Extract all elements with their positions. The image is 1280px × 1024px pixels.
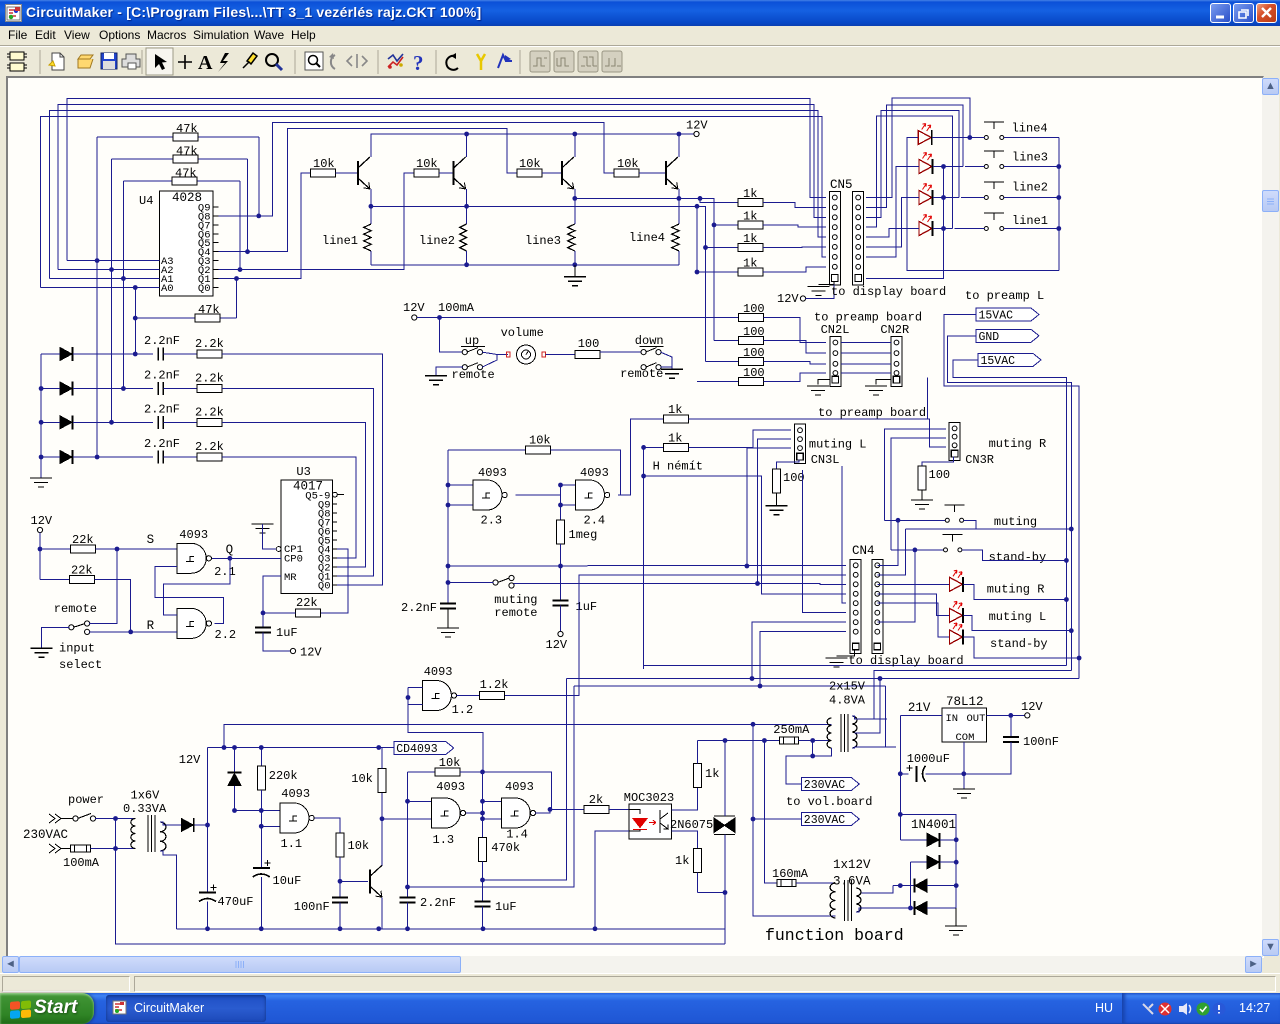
LED line3 indicator bbox=[919, 160, 932, 174]
capacitor 2.2nF row3 bbox=[158, 416, 163, 429]
wire fuse to transformer bbox=[91, 848, 136, 850]
wire flag 15VAC lower loop Va bbox=[953, 360, 1066, 666]
svg-text:12V: 12V bbox=[403, 301, 425, 315]
svg-text:100mA: 100mA bbox=[438, 301, 475, 315]
svg-text:remote: remote bbox=[620, 367, 663, 381]
resistor 47k (R4) bbox=[135, 317, 236, 319]
ground input select bbox=[31, 648, 53, 657]
wire 2.3 input node bbox=[447, 450, 449, 604]
svg-text:CD4093: CD4093 bbox=[396, 743, 438, 756]
svg-text:2.2nF: 2.2nF bbox=[144, 334, 180, 348]
resistor 470k bbox=[479, 838, 487, 862]
svg-text:select: select bbox=[59, 658, 102, 672]
wire 12V node vertical bbox=[207, 748, 209, 893]
wire remote throw to S bbox=[89, 549, 117, 624]
wire muting remote line to CN4 pin3 bbox=[448, 582, 494, 584]
wire 2.4 output bbox=[618, 419, 663, 495]
wire row4 to U3 Q3 bbox=[222, 457, 356, 558]
wire staircase A0 to diode row1 bbox=[134, 288, 136, 355]
NAND gate 2.4 bbox=[576, 480, 605, 510]
svg-text:100nF: 100nF bbox=[294, 900, 330, 914]
LED line2 indicator bbox=[919, 191, 932, 205]
svg-text:line3: line3 bbox=[1012, 151, 1048, 165]
svg-text:muting: muting bbox=[494, 593, 537, 607]
NAND gate 2.1 bbox=[177, 543, 206, 573]
wire Q4 to 22k bbox=[320, 549, 348, 613]
svg-text:?: ? bbox=[413, 51, 424, 75]
resistor 47k (R3) bbox=[123, 180, 240, 182]
wire standby switch line bbox=[891, 549, 944, 551]
wire 47k R4 to Q1 bbox=[236, 279, 238, 319]
wire A2 row bbox=[58, 269, 160, 271]
relay coil line4 bbox=[672, 224, 679, 251]
transistor Q2 line2 driver bbox=[453, 161, 455, 185]
svg-text:line2: line2 bbox=[419, 234, 455, 248]
diode input row2 bbox=[60, 382, 72, 395]
wire 1k lower to CN3L pin1 bbox=[688, 430, 791, 447]
wire 100R to down switch bbox=[600, 351, 642, 353]
svg-text:IN: IN bbox=[946, 713, 959, 725]
wire 1.1 output to 10k bbox=[314, 818, 340, 833]
wire CN3L square to 100R bbox=[777, 460, 800, 469]
resistor 1k (to CN5 pin6) bbox=[706, 247, 738, 249]
svg-text:230VAC: 230VAC bbox=[804, 779, 846, 792]
resistor 100 (CN3L) bbox=[773, 469, 781, 493]
NAND gate 1.2 bbox=[422, 681, 451, 711]
resistor 100 (r4) bbox=[697, 381, 738, 383]
wire 1uF to 12V term bbox=[560, 606, 562, 632]
capacitor 2.2nF (1.3) bbox=[400, 898, 416, 903]
wire CN4R pin5 to standby LED bbox=[878, 603, 950, 637]
switch line4 bbox=[984, 136, 988, 140]
wire 1.4 input node bbox=[482, 772, 484, 838]
svg-text:100: 100 bbox=[783, 471, 805, 485]
wire Q4 net to bus L6 bbox=[219, 129, 518, 252]
svg-text:to preamp board: to preamp board bbox=[818, 406, 926, 420]
svg-text:10k: 10k bbox=[313, 157, 335, 171]
ground mute cap bbox=[447, 609, 449, 629]
wire 22k R to R-line bbox=[95, 580, 131, 632]
terminal 12V volume bbox=[412, 315, 417, 320]
svg-text:muting R: muting R bbox=[989, 437, 1047, 451]
wire 21V to IN bbox=[900, 714, 942, 716]
wire MOC pin4 to 1k bbox=[671, 788, 697, 811]
wire trunk B vertical bbox=[408, 686, 574, 887]
svg-text:21V: 21V bbox=[908, 701, 931, 715]
switch line2 bbox=[984, 196, 988, 200]
LED muting R bbox=[950, 577, 963, 591]
svg-text:2.2: 2.2 bbox=[215, 628, 237, 642]
svg-text:1meg: 1meg bbox=[569, 528, 598, 542]
svg-text:muting: muting bbox=[994, 515, 1037, 529]
wire 2.2 out to 2.1 input (feedback) bbox=[155, 567, 224, 624]
svg-text:100: 100 bbox=[743, 366, 765, 380]
resistor 1k (gate) bbox=[694, 849, 702, 873]
svg-text:CN2L: CN2L bbox=[821, 323, 850, 337]
wire 10k osc line bbox=[408, 771, 436, 773]
wire mute line to CN4 pin1 bbox=[448, 564, 846, 567]
svg-text:2.2nF: 2.2nF bbox=[144, 369, 180, 383]
wire OUT to 12V bbox=[987, 714, 1025, 716]
node A2 junction bbox=[109, 267, 114, 272]
wire standby cathode bbox=[964, 637, 1080, 658]
terminal 12V rail bbox=[694, 131, 699, 136]
wire T1 secondary top to rectifier bbox=[160, 822, 181, 825]
ground CN2L bbox=[807, 386, 829, 395]
wire bus L1 (line4 net) bbox=[67, 98, 826, 260]
switch line3 bbox=[984, 165, 988, 169]
wire diode row4 bbox=[41, 456, 60, 458]
svg-text:remote: remote bbox=[452, 368, 495, 382]
svg-text:1.1: 1.1 bbox=[281, 837, 303, 851]
connector CN3R bbox=[949, 422, 960, 460]
svg-text:2.2nF: 2.2nF bbox=[144, 402, 180, 416]
wire MOC pin1 bbox=[629, 809, 640, 814]
resistor 1k (to CN5 pin4) bbox=[714, 224, 738, 226]
capacitor 1uF (MR) bbox=[255, 628, 271, 633]
wire 12V 100mA line bbox=[417, 317, 738, 319]
terminal 12V CN5 bbox=[800, 296, 805, 301]
svg-text:power: power bbox=[68, 793, 104, 807]
wire T3 emitter to coil bbox=[574, 189, 576, 224]
wire staircase A1 to diode row2 bbox=[122, 181, 124, 389]
wire CN5R pin2 to line3 switch bbox=[866, 105, 963, 208]
wire trunk A to CN4 pin7 bbox=[566, 678, 1079, 680]
wire LED3 anode to CN5R pin6 bbox=[866, 198, 919, 247]
svg-text:22k: 22k bbox=[296, 596, 318, 610]
diode input row1 bbox=[60, 348, 72, 361]
wire 2.3 out to 2.4 in bbox=[516, 494, 561, 496]
wire T1 secondary bottom bbox=[160, 851, 176, 929]
svg-text:line4: line4 bbox=[629, 231, 665, 245]
resistor 1k (MOC top) bbox=[694, 764, 702, 788]
wire muting return bbox=[964, 520, 976, 529]
svg-text:1uF: 1uF bbox=[495, 900, 517, 914]
node A3 junction bbox=[95, 258, 100, 263]
svg-text:2.2nF: 2.2nF bbox=[420, 896, 456, 910]
wire T2 emitter to coil bbox=[466, 189, 468, 224]
IC 78L12 regulator bbox=[942, 708, 987, 742]
capacitor 1uF (1.4) bbox=[475, 902, 491, 907]
resistor 1.2k bbox=[480, 692, 505, 700]
resistor 47k (R1) bbox=[97, 136, 259, 138]
svg-text:stand-by: stand-by bbox=[990, 637, 1048, 651]
wire 47k R1 to Q8 bbox=[258, 137, 260, 216]
wire standby return bbox=[962, 550, 1067, 561]
svg-text:1k: 1k bbox=[675, 854, 689, 868]
wire to preamp line to CN3R pin3 bbox=[690, 419, 946, 447]
svg-text:Q: Q bbox=[226, 543, 234, 557]
wire diode row2 bbox=[41, 388, 60, 390]
svg-text:10k: 10k bbox=[439, 756, 461, 770]
wire LED4 anode to CN5R pin5 bbox=[866, 229, 919, 238]
capacitor 2.2nF (mute) bbox=[440, 604, 456, 609]
wire CN4R pin2 to muting return bbox=[878, 529, 906, 575]
flag 15VAC lower bbox=[978, 353, 1041, 366]
wire switch to motor bbox=[482, 352, 508, 354]
svg-text:12V: 12V bbox=[1021, 700, 1043, 714]
fuse 100mA bbox=[71, 845, 91, 852]
resistor 100 (r1) bbox=[738, 314, 763, 322]
wire line status tap A bbox=[575, 198, 714, 340]
resistor 10k (T4 base) bbox=[614, 169, 639, 177]
resistor 100 (CN3R) bbox=[918, 466, 926, 490]
wire T1 emitter to coil bbox=[370, 189, 372, 224]
wire CN3R square to 100R bbox=[922, 457, 954, 466]
wire staircase A2 to diode row3 bbox=[111, 159, 113, 422]
wire fuse to T2 primary bbox=[799, 740, 832, 742]
diode rectifier 1N4001 bbox=[181, 819, 193, 832]
connector CN5 right header bbox=[853, 192, 864, 285]
wire 12V to 22k resistors bbox=[39, 533, 41, 580]
svg-text:22k: 22k bbox=[72, 533, 94, 547]
svg-text:Q0: Q0 bbox=[318, 581, 331, 593]
wire row3 to U3 Q2 bbox=[222, 422, 366, 567]
wire 1.2 output to 1.2k bbox=[457, 695, 480, 697]
svg-text:1k: 1k bbox=[668, 403, 682, 417]
wire fuse to T3 bbox=[796, 882, 836, 884]
wire staircase A3 to diode row4 bbox=[96, 137, 98, 457]
svg-text:H némít: H némít bbox=[653, 460, 703, 474]
svg-text:0.33VA: 0.33VA bbox=[123, 802, 167, 816]
diode D1 1N4001 bbox=[900, 839, 927, 841]
svg-text:12V: 12V bbox=[686, 119, 708, 133]
wire live to transformer bbox=[95, 818, 136, 820]
svg-text:470k: 470k bbox=[491, 841, 520, 855]
wire 21V node vertical bbox=[899, 715, 901, 839]
wire MOC pin2 to bottom rail bbox=[629, 830, 640, 832]
svg-text:MR: MR bbox=[284, 572, 297, 584]
wire 1uF to 12V bbox=[263, 633, 290, 652]
resistor 220k bbox=[260, 748, 262, 767]
ground CP1 bbox=[252, 524, 274, 533]
svg-text:COM: COM bbox=[956, 732, 975, 744]
wire bus L2 (line3 net) bbox=[58, 105, 826, 270]
NAND gate 1.4 bbox=[501, 798, 530, 828]
NAND gate 2.2 bbox=[177, 608, 206, 638]
ground bridge bbox=[955, 908, 957, 926]
resistor 1meg bbox=[557, 520, 565, 544]
svg-text:10k: 10k bbox=[416, 157, 438, 171]
wire CN5 left square to ground bbox=[819, 282, 834, 285]
wire D3 from T3 secondary top bbox=[860, 886, 893, 893]
svg-text:OUT: OUT bbox=[967, 713, 986, 725]
svg-text:4093: 4093 bbox=[179, 528, 208, 542]
ground CN5 bbox=[808, 287, 830, 296]
resistor 22k (MR) bbox=[295, 609, 320, 617]
wire triac MT1 down bbox=[724, 835, 726, 893]
wire up remote ground bbox=[436, 367, 463, 376]
svg-text:1k: 1k bbox=[743, 187, 757, 201]
wire D2 anode vertical bbox=[910, 862, 912, 908]
relay coil line1 bbox=[364, 224, 371, 251]
wire 1.3 input node bbox=[407, 772, 409, 898]
wire 12V to CN5 square bbox=[806, 285, 834, 299]
svg-text:line4: line4 bbox=[1012, 122, 1048, 136]
svg-text:Q0: Q0 bbox=[198, 283, 211, 295]
wire diode row1 bbox=[41, 353, 60, 355]
fuse 250mA bbox=[725, 740, 780, 742]
wire collector to 1.3 input bbox=[382, 818, 431, 820]
wire A0 row bbox=[40, 287, 159, 289]
svg-text:2.2k: 2.2k bbox=[195, 337, 224, 351]
svg-text:3.6VA: 3.6VA bbox=[833, 875, 871, 889]
wire line A 1k-triac bbox=[698, 740, 765, 742]
wire CN5R pin3 to line2 switch bbox=[866, 110, 959, 217]
resistor 10k (osc 2.3) bbox=[448, 449, 526, 451]
svg-text:47k: 47k bbox=[175, 167, 197, 181]
ground CN4 bbox=[826, 658, 848, 667]
svg-text:MOC3023: MOC3023 bbox=[624, 791, 674, 805]
svg-text:15VAC: 15VAC bbox=[981, 355, 1016, 368]
wire MR node bbox=[263, 576, 281, 628]
wire 2k to MOC bbox=[609, 808, 629, 810]
wire LED2 cathode row bbox=[933, 166, 963, 168]
svg-text:2.3: 2.3 bbox=[481, 514, 503, 528]
resistor 2.2k row2 bbox=[197, 385, 222, 393]
diode input row3 bbox=[60, 416, 72, 429]
svg-text:2.2k: 2.2k bbox=[195, 405, 224, 419]
LED muting L bbox=[950, 608, 963, 622]
fuse 160mA bbox=[764, 741, 777, 884]
wire CN3R pin1 feed from muting switch bbox=[885, 429, 946, 521]
diode D2 1N4001 bbox=[911, 861, 928, 863]
svg-text:12V: 12V bbox=[179, 753, 201, 767]
svg-text:1k: 1k bbox=[705, 767, 719, 781]
resistor 10k (collector) bbox=[378, 769, 386, 793]
wire CN2L ground bbox=[818, 380, 830, 385]
wire trunk B to CN4 pin8 bbox=[574, 685, 886, 687]
svg-text:remote: remote bbox=[54, 602, 97, 616]
svg-text:A: A bbox=[198, 52, 213, 74]
svg-text:line1: line1 bbox=[1012, 214, 1048, 228]
switch stand-by bbox=[944, 548, 948, 552]
connector CN5 left header bbox=[829, 192, 840, 285]
svg-text:1k: 1k bbox=[743, 257, 757, 271]
wire flag GND loop Vb bbox=[947, 336, 1071, 671]
svg-text:muting R: muting R bbox=[987, 583, 1045, 597]
switch line1 bbox=[984, 227, 988, 231]
svg-text:230VAC: 230VAC bbox=[804, 814, 846, 827]
wire muting switch line bbox=[885, 519, 946, 521]
svg-text:to display board: to display board bbox=[848, 654, 963, 668]
svg-text:1.2k: 1.2k bbox=[480, 678, 509, 692]
svg-text:CN2R: CN2R bbox=[880, 323, 909, 337]
svg-text:2.4: 2.4 bbox=[584, 514, 606, 528]
svg-text:100: 100 bbox=[578, 337, 600, 351]
wire 47k R2 to Q4 bbox=[247, 159, 249, 252]
resistor 10k (osc 1.1) bbox=[336, 833, 344, 857]
capacitor 2.2nF row2 bbox=[158, 382, 163, 395]
svg-text:volume: volume bbox=[501, 326, 544, 340]
svg-text:4093: 4093 bbox=[424, 665, 453, 679]
ground CN2R bbox=[865, 386, 887, 395]
wire Q2 net to 10k T2 bbox=[219, 173, 415, 270]
svg-text:47k: 47k bbox=[198, 303, 220, 317]
wire CN4R pin3 to muting R LED bbox=[878, 583, 950, 585]
wire Q8 net to bus L5 bbox=[219, 123, 615, 216]
wire CN5R pin1 to line4 switch bbox=[866, 98, 970, 197]
flag 15VAC upper bbox=[976, 308, 1039, 321]
svg-text:remote: remote bbox=[494, 606, 537, 620]
connector CN2R bbox=[891, 337, 902, 387]
wire A1 row bbox=[50, 278, 160, 280]
wire switch bus vertical bbox=[1004, 137, 1059, 139]
resistor 100 (r3) bbox=[706, 361, 739, 363]
wire T2 primary bottom to 230VAC flag bbox=[813, 741, 832, 757]
svg-text:CN4: CN4 bbox=[852, 544, 875, 558]
wire CN2R ground bbox=[876, 380, 891, 385]
resistor 2.2k row1 bbox=[197, 350, 222, 358]
svg-text:line1: line1 bbox=[322, 234, 358, 248]
svg-text:to display board: to display board bbox=[831, 285, 946, 299]
transistor Q3 line3 driver bbox=[561, 161, 563, 185]
wire bottom rail bbox=[176, 928, 595, 930]
svg-text:12V: 12V bbox=[31, 514, 53, 528]
svg-text:up: up bbox=[465, 334, 479, 348]
svg-text:CN5: CN5 bbox=[830, 178, 853, 192]
wire 1.1 inputs bbox=[261, 825, 280, 827]
wire MOC pin3 to triac gate bbox=[671, 831, 697, 849]
svg-text:1N4001: 1N4001 bbox=[911, 818, 956, 832]
svg-text:CN3L: CN3L bbox=[811, 453, 840, 467]
wire 100nF to ground node bbox=[964, 742, 1011, 774]
wire H nemit vertical bbox=[643, 447, 645, 669]
wire T2 secondary taps bbox=[852, 716, 887, 719]
svg-text:100: 100 bbox=[743, 325, 765, 339]
wire mute to CN3L pin3 bbox=[747, 448, 791, 566]
svg-text:10k: 10k bbox=[351, 772, 373, 786]
wire row2 to U3 Q1 bbox=[222, 389, 374, 577]
wire down remote ground bbox=[661, 352, 672, 369]
terminal 12V mute bbox=[558, 631, 563, 636]
svg-text:1k: 1k bbox=[743, 210, 757, 224]
resistor 100 (r2) bbox=[714, 340, 738, 342]
svg-text:10k: 10k bbox=[519, 157, 541, 171]
wire neutral input bbox=[49, 844, 61, 853]
resistor 10k (osc 1.3) bbox=[435, 768, 460, 776]
switch muting bbox=[945, 518, 949, 522]
svg-text:2x15V: 2x15V bbox=[829, 680, 866, 694]
wire bridge right vertical bbox=[955, 814, 957, 908]
wire 10k to base node bbox=[339, 857, 341, 881]
svg-text:line2: line2 bbox=[1012, 181, 1048, 195]
ground volume remote bbox=[425, 376, 447, 385]
capacitor 100nF (osc) bbox=[339, 881, 341, 897]
wire tap to 1k r4 bbox=[696, 206, 698, 272]
svg-text:78L12: 78L12 bbox=[946, 695, 984, 709]
switch muting remote bbox=[493, 580, 498, 585]
wire COM down bbox=[963, 742, 965, 789]
svg-text:1.4: 1.4 bbox=[506, 828, 528, 842]
svg-text:CN3R: CN3R bbox=[965, 453, 994, 467]
diode input row4 bbox=[60, 451, 72, 464]
wire muting L cathode bbox=[964, 615, 1072, 630]
wire bus L3 (line2 net) bbox=[50, 111, 826, 279]
wire A3 row bbox=[67, 260, 159, 262]
wire 470k bottom bbox=[482, 862, 484, 902]
node A1 junction bbox=[121, 276, 126, 281]
wire 1.4 output bbox=[535, 809, 550, 813]
svg-text:muting L: muting L bbox=[809, 438, 867, 452]
diode D4 1N4001 bbox=[911, 907, 915, 909]
wire Q1 net to 10k T1 bbox=[219, 173, 311, 279]
svg-text:4093: 4093 bbox=[436, 780, 465, 794]
svg-text:2.2nF: 2.2nF bbox=[144, 437, 180, 451]
svg-text:15VAC: 15VAC bbox=[979, 310, 1014, 323]
svg-text:A0: A0 bbox=[161, 283, 174, 295]
flag 230VAC upper bbox=[801, 778, 859, 791]
